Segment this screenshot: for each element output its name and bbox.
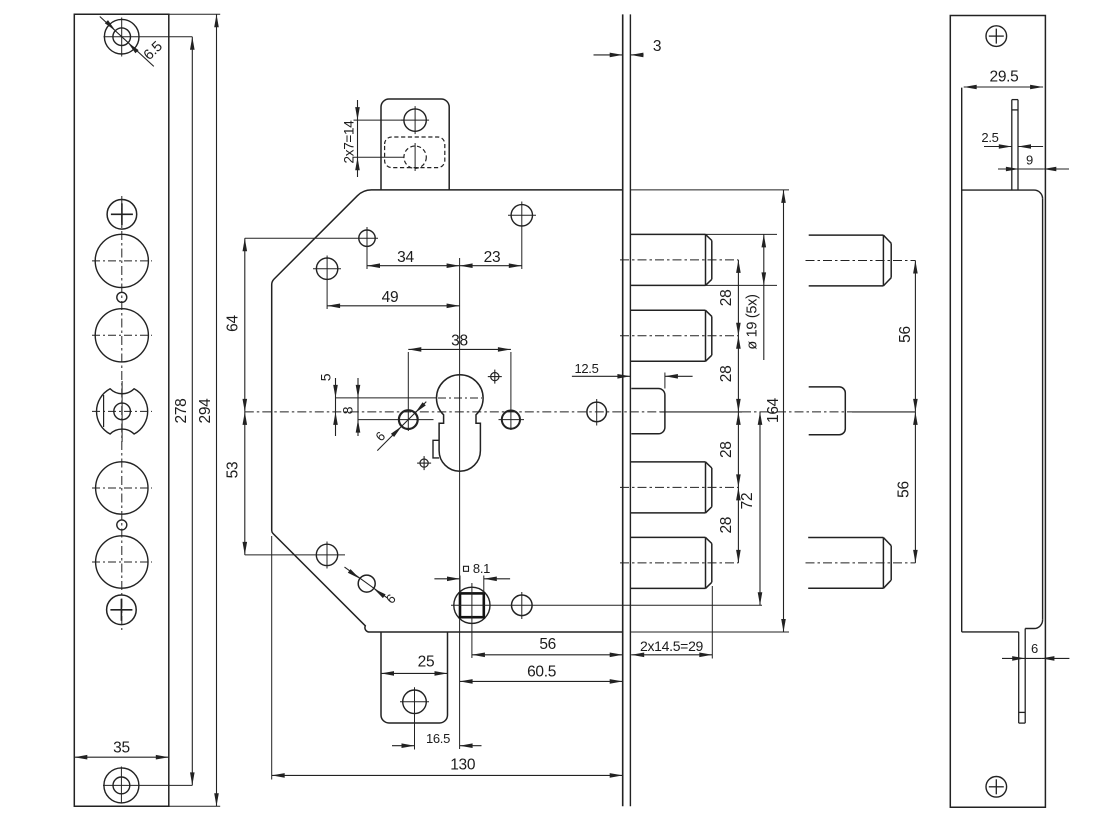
svg-text:23: 23 <box>484 249 501 266</box>
svg-text:278: 278 <box>173 399 190 424</box>
svg-text:60.5: 60.5 <box>527 664 556 681</box>
svg-text:8: 8 <box>340 406 356 414</box>
svg-text:49: 49 <box>382 289 399 306</box>
svg-text:ø 19 (5x): ø 19 (5x) <box>745 294 761 349</box>
svg-text:56: 56 <box>896 481 913 498</box>
svg-text:28: 28 <box>718 366 735 383</box>
svg-text:28: 28 <box>718 441 735 458</box>
svg-text:72: 72 <box>739 493 756 510</box>
svg-text:164: 164 <box>765 397 782 423</box>
svg-text:2x7=14: 2x7=14 <box>342 120 357 164</box>
svg-text:294: 294 <box>197 398 214 424</box>
svg-text:53: 53 <box>225 462 242 479</box>
svg-text:56: 56 <box>539 636 556 653</box>
svg-text:6: 6 <box>1031 641 1038 656</box>
svg-text:28: 28 <box>718 517 735 534</box>
svg-text:5: 5 <box>317 373 333 381</box>
svg-text:8.1: 8.1 <box>473 561 490 576</box>
svg-text:16.5: 16.5 <box>426 731 450 746</box>
svg-text:9: 9 <box>1026 153 1033 168</box>
svg-text:35: 35 <box>113 740 130 757</box>
svg-text:34: 34 <box>397 249 414 266</box>
svg-text:2.5: 2.5 <box>981 130 998 145</box>
svg-text:12.5: 12.5 <box>574 361 598 376</box>
svg-text:28: 28 <box>718 290 735 307</box>
svg-text:130: 130 <box>450 757 476 774</box>
svg-text:56: 56 <box>897 326 914 343</box>
svg-text:3: 3 <box>653 38 661 55</box>
svg-text:29.5: 29.5 <box>990 69 1019 86</box>
svg-text:64: 64 <box>225 315 242 332</box>
svg-text:25: 25 <box>418 654 435 671</box>
svg-text:2x14.5=29: 2x14.5=29 <box>640 638 704 654</box>
